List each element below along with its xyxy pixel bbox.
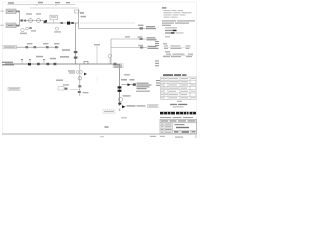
valve V24 black [118, 90, 122, 92]
revision sub-table [160, 123, 173, 134]
air valve AV3 [43, 61, 45, 65]
label above line3 b [50, 58, 56, 60]
instrument stem x110 [109, 58, 111, 65]
label box L1 left [3, 45, 17, 48]
wire branch y84.7 [122, 84, 137, 86]
title block small text under logo [160, 117, 193, 118]
label pump text a [26, 13, 32, 14]
label tank1 left stub [1, 11, 4, 12]
table small 1 [164, 45, 191, 49]
valve V14 on riser [74, 51, 78, 53]
valve V2b [17, 25, 19, 27]
valve V2 [21, 19, 23, 21]
valve V18 [37, 63, 40, 65]
label outfall long [127, 105, 136, 106]
wire bridge jog [84, 61, 88, 64]
label above line2 c [54, 43, 60, 44]
valve V20 [47, 63, 50, 65]
wire drop x19.5 [19, 11, 21, 25]
wire riser x111 [110, 39, 112, 64]
outfall arrow [122, 105, 126, 108]
wire step down [43, 21, 45, 24]
table small 2 [163, 54, 193, 58]
valve V5 black bowtie [44, 20, 47, 24]
note lines lower darker [162, 20, 195, 26]
wire cluster link [70, 88, 80, 90]
label above line3 a [36, 56, 43, 58]
title text area [175, 124, 185, 125]
flow arrow A2 [84, 73, 87, 76]
label destination D3 [148, 46, 159, 49]
instrument bubbles I1 [21, 28, 24, 31]
wire drop x97 [96, 46, 98, 64]
pump P1 circle [29, 19, 33, 23]
label box far left [8, 87, 20, 90]
label right of B2 [80, 12, 84, 13]
note block 2 scale lines [165, 27, 177, 28]
label above line y47 [138, 45, 143, 46]
wire line y8 [30, 7, 79, 9]
valve V10 [26, 46, 29, 48]
label tank2 left stub [1, 25, 4, 26]
margin text group1 [155, 41, 159, 46]
drain tail [119, 109, 121, 112]
wire from T1 [16, 10, 20, 12]
valve V26 [133, 83, 136, 85]
flow arrow A1 [128, 83, 131, 86]
label destination D1 [146, 26, 156, 29]
valve V23 black [118, 86, 122, 88]
valve V13 [55, 46, 58, 48]
valve V7 [140, 27, 143, 29]
label right of riser x120 [124, 74, 130, 76]
instrument box B4 [148, 105, 159, 108]
sheet frame [3, 2, 197, 134]
label block right of branch [137, 83, 152, 90]
instrument box B5 [58, 87, 64, 90]
title block outline [160, 119, 197, 134]
wire from T2 [16, 25, 20, 27]
valve V12 [46, 46, 49, 48]
label line3 left box [2, 62, 14, 66]
wire riser x75 [75, 23, 77, 64]
wire main line 3 [5, 63, 120, 65]
label mid [31, 30, 36, 31]
label destination D2 [147, 37, 157, 40]
label above line2 b [43, 43, 49, 44]
schedule table cell text [161, 78, 195, 98]
meter M2 circle [119, 98, 123, 102]
label pump text b [36, 13, 41, 14]
wire pump header [20, 20, 45, 22]
label above table1 [163, 43, 167, 44]
label right of riser [81, 16, 87, 17]
logo company name bar [160, 112, 196, 115]
wire main line 1 [44, 22, 79, 24]
wire E1 stem [53, 20, 55, 23]
tank T2 hatched [6, 23, 17, 28]
wire line y47 to label [111, 47, 147, 49]
stamp text lines [177, 101, 182, 102]
label NOTES header [162, 7, 167, 8]
junction J1 black square [67, 22, 70, 25]
valve V1 [18, 11, 20, 13]
margin text group2 [155, 60, 159, 66]
dashes x97 [96, 77, 98, 82]
meter M3 circle [78, 77, 82, 81]
label dashed box bottom [103, 110, 115, 113]
label above line y39 [125, 36, 130, 37]
label between tables [165, 51, 170, 52]
wire faint line y23 [80, 22, 135, 24]
instrument box B3 [113, 64, 123, 68]
label above V7 [138, 25, 144, 26]
valve V21 [54, 63, 57, 65]
note short line [165, 36, 170, 37]
label under bubbles [20, 33, 27, 35]
valve V28 [78, 91, 81, 93]
title block header row text [161, 120, 196, 121]
label left text [56, 80, 63, 81]
frame bottom line [2, 133, 197, 135]
note lines [164, 10, 192, 18]
wire main line 2 [17, 46, 60, 48]
label faint [121, 117, 127, 118]
valve V25 [118, 103, 121, 105]
instrument bubbles I2 [76, 71, 79, 74]
valve V4 [61, 22, 63, 24]
tank T1 hatched [6, 9, 17, 14]
valve V27 [78, 85, 81, 87]
label pair above valves [121, 79, 127, 81]
label left of riser x75 row1 [62, 49, 70, 51]
wire riser x78 [78, 9, 80, 29]
valve V3 [24, 20, 26, 22]
valve V29 [65, 88, 68, 90]
valve V11 [34, 46, 37, 48]
label above V29 [63, 84, 69, 85]
wire line y39 to label [111, 38, 146, 40]
schedule table header [163, 74, 173, 76]
label boundary text [8, 2, 70, 4]
label above line2 a [27, 43, 33, 44]
node battery-limit boundary line top [7, 5, 75, 7]
label row under branch [136, 91, 150, 92]
label at x97 top [94, 44, 100, 46]
label under M1 [54, 31, 61, 32]
air valve AV1 [21, 61, 23, 65]
pump P2 circle [37, 19, 41, 23]
valve V3b [29, 27, 31, 29]
valve V15 on riser [74, 57, 78, 59]
instrument box B2 [75, 10, 80, 13]
label right of V28 [83, 92, 89, 93]
label text [68, 70, 75, 71]
drawing number row [173, 130, 197, 134]
valve V9 [140, 47, 143, 49]
schedule table grid [161, 77, 197, 100]
equipment box E1 [50, 15, 58, 20]
valve V17 black [28, 63, 31, 65]
valve V22 dark [114, 63, 117, 66]
valve V8 [140, 38, 143, 40]
page footer marks [100, 136, 104, 137]
wire line y28 to label [79, 28, 147, 30]
label small above frame [105, 126, 109, 128]
margin text group3 [156, 80, 160, 86]
label left of riser x75 row2 [60, 56, 69, 58]
label right of V24 [123, 95, 131, 96]
air valve AV2 [29, 61, 31, 65]
meter M1 circle [55, 27, 58, 30]
valve V6 [71, 22, 74, 24]
wire riser x120 down [119, 64, 121, 106]
wire drop x80 [79, 64, 81, 96]
